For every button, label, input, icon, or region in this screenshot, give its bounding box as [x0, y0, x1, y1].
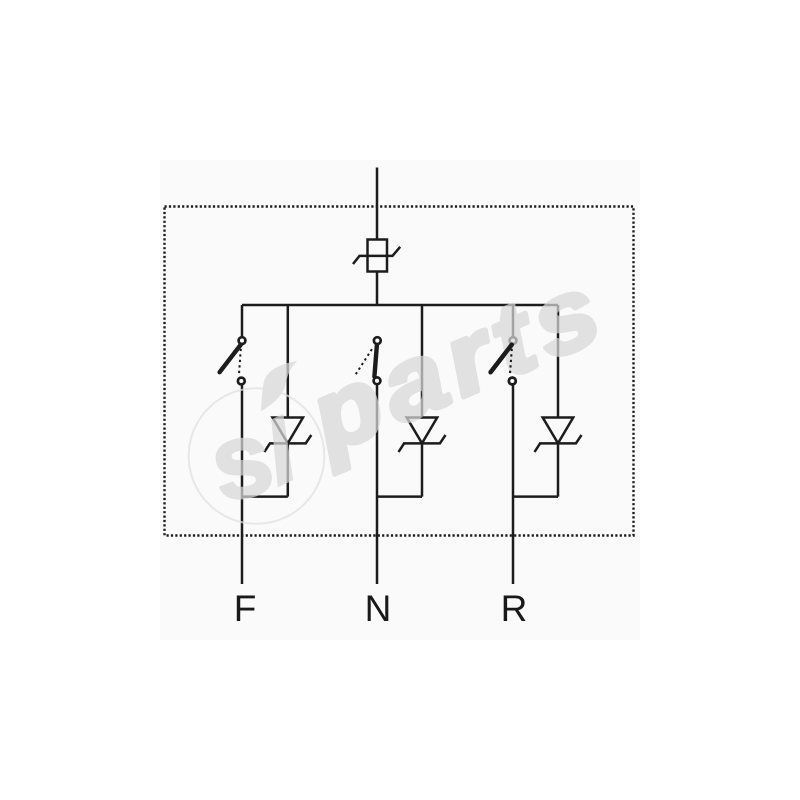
diode D2 cathode bar (zener tails) — [399, 435, 446, 452]
svg-text:N: N — [365, 588, 392, 629]
diode D3 cathode bar (zener tails) — [535, 435, 582, 452]
wire below D1 — [287, 443, 290, 496]
wire below D3 — [557, 443, 560, 496]
switch S3 bottom contact — [509, 378, 516, 385]
wire branch R drop — [512, 305, 515, 337]
switch S3 top contact — [510, 337, 517, 344]
watermark group — [189, 251, 622, 525]
wire below S1 — [241, 385, 244, 584]
wire below S2 — [376, 385, 379, 584]
switch S1 bottom contact — [238, 378, 245, 385]
switch S3 lever repaint — [491, 345, 512, 373]
wire fuse to bus — [376, 272, 379, 306]
watermark letter i stem — [271, 414, 293, 488]
wire bus — [242, 304, 558, 307]
switch S3 lever — [491, 345, 512, 373]
svg-text:R: R — [501, 588, 528, 629]
wire below D2 — [421, 443, 424, 496]
switch S3 bottom contact repaint — [509, 378, 516, 385]
wire branch N diode drop — [421, 305, 424, 418]
switch S2 top contact — [374, 337, 381, 344]
wire top lead — [376, 168, 379, 240]
dotted enclosure border — [165, 207, 634, 536]
wire join D3 to R leg — [513, 495, 558, 498]
wire branch F diode drop — [287, 305, 290, 418]
wire below S3 — [512, 385, 515, 584]
switch S3 dotted path — [510, 349, 512, 376]
watermark circle — [189, 388, 325, 524]
watermark leaf (dot of i) — [261, 361, 297, 411]
wire join D1 to F leg — [242, 495, 288, 498]
svg-text:F: F — [234, 588, 257, 629]
switch S1 top contact — [239, 337, 246, 344]
switch S1 lever — [220, 345, 241, 373]
fuse disconnect stroke — [353, 247, 400, 264]
switch S3 dotted path repaint — [510, 349, 512, 376]
wire branch R diode drop — [557, 305, 560, 418]
diode D2 (suppressor) triangle — [407, 418, 438, 444]
fuse F1 (thermal disconnector) — [368, 240, 388, 272]
photo area background — [160, 160, 640, 640]
diode D1 (suppressor) triangle — [273, 418, 304, 444]
switch S2 bottom contact — [374, 377, 381, 384]
diode D1 cathode bar (zener tails) — [264, 435, 311, 452]
wire branch F drop — [241, 305, 244, 337]
switch S1 dotted path — [239, 349, 241, 376]
wire join D2 to N leg — [377, 495, 422, 498]
switch S2 lever (closed) — [374, 345, 377, 377]
switch S2 dotted path — [356, 349, 372, 374]
diode D3 (suppressor) triangle — [543, 418, 574, 444]
